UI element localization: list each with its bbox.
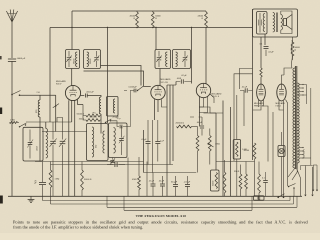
wire T1 feed (71, 49, 73, 51)
wire chassis rail (8, 195, 302, 197)
oscillator box B4 left (87, 124, 109, 161)
resistor R6 stopper (86, 119, 100, 122)
output transformer secondary (281, 15, 283, 31)
resistor R21 aerial shunt (10, 122, 18, 124)
svg-text:0.0001µF: 0.0001µF (129, 87, 138, 89)
wire tone circuit drop (264, 34, 266, 45)
wire V5 anode top (282, 75, 285, 84)
capacitor C8 .01uF (146, 141, 151, 143)
coil L4b oscillator reaction (103, 131, 105, 153)
capacitor C7 osc padder (119, 137, 124, 139)
wire top rail upper (72, 10, 206, 12)
wire C4 to coil L2 (87, 96, 101, 98)
wire V4 pins (258, 100, 260, 107)
wire V1 grid top (71, 69, 73, 86)
svg-text:30000: 30000 (213, 181, 215, 186)
trimmer C3 (94, 57, 99, 59)
svg-text:V.P. 4 B: V.P. 4 B (161, 82, 169, 84)
resistor R16 30000 ohm (81, 170, 84, 190)
coil L2 IF stopper (99, 97, 101, 114)
resistor R19 voltage divider (239, 174, 242, 189)
coil L3 aerial tuning (46, 129, 48, 159)
svg-text:.02 µF: .02 µF (242, 87, 248, 89)
capacitor C4 .0001uF (84, 94, 86, 98)
switch S5 mains on-off (288, 186, 290, 188)
valve V4 Mullard Pen4VA output pentode (257, 84, 266, 101)
wire top-left vertical (49, 28, 51, 123)
fuse F1 (254, 196, 265, 200)
mains transformer HT secondary winding (297, 83, 299, 163)
capacitor C9 .1uF (155, 141, 160, 143)
svg-text:1 MΩ: 1 MΩ (10, 120, 15, 122)
wire rail 5 (123, 196, 125, 210)
svg-text:.0004 µF: .0004 µF (17, 58, 26, 60)
IF transformer T2 secondary box (173, 50, 191, 69)
coil T2 secondary (176, 52, 178, 67)
capacitor C17 25uF cathode bias (39, 181, 46, 183)
switch S4 mains (277, 197, 279, 199)
mains tap leads (299, 147, 302, 149)
wire box drop (127, 158, 129, 197)
potentiometer arm (208, 144, 214, 148)
svg-text:50000: 50000 (244, 150, 249, 152)
svg-text:58000: 58000 (74, 59, 76, 64)
wire V1 anode lead (81, 95, 85, 97)
ground E1 (30, 196, 32, 199)
wire bias line (55, 95, 57, 131)
capacitor C20 .25uF (151, 183, 156, 185)
wire L2 down (100, 114, 102, 134)
pilot lamp P1 (278, 146, 285, 157)
svg-text:.04 µF: .04 µF (159, 181, 165, 183)
trimmer C10 (157, 57, 162, 59)
variable capacitor VC1 (50, 140, 56, 142)
wire R1 top (136, 11, 138, 12)
coil L5 oscillator tuning (114, 128, 116, 154)
capacitor C15 tone corrector (257, 12, 268, 35)
switch S2 on bias line (53, 104, 59, 108)
resistor R12 decoupling (253, 143, 256, 159)
coil L4 oscillator grid (92, 127, 94, 157)
svg-text:MULLARD: MULLARD (161, 78, 171, 81)
loudspeaker LS (284, 19, 287, 26)
mains transformer core (294, 66, 296, 169)
coil L7 inside filter box (113, 99, 115, 113)
heater wiring steps (199, 107, 223, 113)
svg-text:250: 250 (96, 145, 98, 148)
svg-text:MULLARD: MULLARD (254, 102, 264, 105)
trimmer C2 (67, 57, 72, 59)
page mark left edge (0, 108, 2, 115)
coil L1 aerial loading 2H (38, 100, 40, 117)
svg-text:200000 Ω: 200000 Ω (176, 123, 185, 125)
wire antenna down-lead (11, 22, 13, 58)
wire V3 pins (199, 97, 201, 127)
wire T1 secondary lower lead (84, 71, 144, 87)
wire drop (146, 162, 148, 197)
IF transformer T2 primary box (155, 50, 171, 69)
coil T1 secondary (87, 52, 89, 67)
resistor R1 20000 ohm (136, 12, 139, 28)
output transformer core (275, 13, 277, 33)
valve V3 Mullard TDD4 double-diode-triode (196, 83, 210, 97)
svg-text:904 V: 904 V (56, 84, 62, 86)
wire mains tap to plug (304, 158, 311, 165)
resistor R8 volume control (196, 136, 199, 152)
capacitor C23 0.1uF (185, 184, 190, 186)
capacitor C14 AF coupling (244, 88, 246, 92)
antenna A1 (6, 10, 17, 23)
svg-text:1 MΩ: 1 MΩ (55, 179, 60, 181)
svg-text:MULLARD: MULLARD (276, 102, 286, 105)
svg-text:MULLARD: MULLARD (56, 80, 66, 83)
wire mid verticals to chassis (143, 130, 145, 173)
page mark left edge lower (0, 196, 3, 204)
svg-text:.25 µF: .25 µF (149, 181, 155, 183)
IF transformer T1 secondary box (84, 50, 101, 69)
wire L3 top (45, 122, 47, 129)
output transformer primary (273, 13, 275, 33)
wire output anode with stopper (260, 37, 262, 68)
svg-text:0.1: 0.1 (262, 178, 265, 180)
switch S1 waveband (11, 94, 13, 96)
wire switch to coil L1 (20, 94, 56, 96)
wire R4 to diode anode (205, 28, 207, 84)
wire mid vertical (152, 120, 154, 173)
wire AF coupling verticals (215, 113, 217, 170)
resistor R7 200000 ohm AVC feed (177, 125, 192, 128)
wire speaker frame (281, 11, 292, 15)
svg-text:.0001 µF: .0001 µF (86, 92, 95, 94)
capacitor C18 8uF smoothing (114, 162, 116, 167)
svg-text:THE FERGUSON MODEL 610: THE FERGUSON MODEL 610 (136, 214, 187, 218)
tuning box B1 aerial circuit (23, 127, 43, 161)
svg-text:0.1: 0.1 (260, 44, 263, 46)
wire V2 pins (154, 99, 156, 120)
heater winding taps upper (299, 84, 302, 86)
wire mid rails (35, 161, 144, 163)
page mark left edge small (0, 56, 2, 59)
svg-text:.0001: .0001 (177, 78, 182, 80)
variable capacitor VC2 (60, 140, 66, 142)
wire HT vertical (252, 9, 254, 160)
svg-text:20 µµF: 20 µµF (113, 117, 120, 119)
resistor R13 parasitic stopper (260, 68, 262, 77)
svg-text:58000: 58000 (90, 59, 92, 64)
svg-text:from the anode of the I.F. amp: from the anode of the I.F. amplifier to … (13, 224, 143, 229)
valve V5 Mullard IW4 rectifier (277, 84, 286, 101)
boxed resistor R22 30000 ohm (211, 170, 220, 191)
capacitor C21 .04uF (160, 183, 165, 185)
resistor R5 oscillator grid leak (86, 114, 100, 117)
resistor R24 mains dropper (258, 174, 261, 193)
resistor R20 (245, 174, 248, 189)
valve V2 Mullard VP4 IF amplifier (151, 85, 165, 99)
mains lead arrows (312, 165, 314, 191)
wire detector feed (191, 28, 193, 82)
wire flex to transformer top (291, 40, 292, 68)
svg-text:30 µµF: 30 µµF (171, 182, 178, 184)
wire rail 3 (51, 203, 294, 205)
trimmer C19 below oscillator box (111, 160, 115, 162)
capacitor C6 padder (28, 141, 33, 143)
capacitor C1 .0004uF aerial series (8, 58, 16, 60)
coil T2 primary (166, 52, 168, 67)
coil T1 primary (75, 52, 77, 67)
wire V5 pins (279, 100, 284, 111)
resistor R2 50000 ohm (151, 12, 154, 28)
wire IF1 AVC feed (107, 28, 109, 124)
wire screen feed vertical (71, 11, 73, 50)
svg-text:.0003: .0003 (37, 146, 39, 151)
mains transformer primary winding (293, 68, 295, 168)
resistor R4 24000 ohm anode feed (205, 12, 208, 28)
IF filter box B3 (107, 97, 119, 117)
resistor R9 1 Mohm (208, 136, 211, 152)
resistor R15 bias 1 Mohm (49, 170, 52, 188)
loudspeaker box enclosure (253, 9, 298, 37)
wire HT negative rail (43, 200, 291, 202)
resistor R17 smoothing 4 Mohm (138, 176, 141, 190)
oscillator box B2 right (109, 123, 128, 158)
wire V2 anode top (159, 69, 161, 86)
wire heater rail right (310, 88, 312, 159)
resistor R23 (223, 172, 226, 193)
svg-text:4 MΩ: 4 MΩ (132, 179, 137, 181)
capacitor C26 (263, 180, 268, 182)
IF transformer T1 primary box (66, 50, 80, 69)
wire HT centre tap drop (272, 112, 274, 196)
mains plug arrows (304, 167, 306, 196)
svg-text:350 Ω: 350 Ω (234, 171, 240, 173)
wire transformer bottom exits (288, 163, 297, 180)
svg-text:.01 µF: .01 µF (141, 139, 147, 141)
svg-text:.02 µF: .02 µF (181, 75, 187, 77)
svg-text:30000 Ω: 30000 Ω (84, 179, 92, 181)
wire IF2 primary HT feed (155, 28, 157, 50)
wire rail 4 (106, 196, 108, 207)
wire antenna lead lower (11, 62, 13, 197)
wire V2 screen bus (166, 85, 168, 196)
svg-text:MULLARD: MULLARD (212, 93, 222, 96)
wire V1 cathode drop (68, 107, 70, 196)
resistor R11 1 Mohm boxed (233, 140, 240, 160)
wire L1 to chassis rail (39, 117, 41, 162)
wire IF grid link (144, 86, 151, 88)
switch S6 box corner (19, 126, 20, 127)
switch S3 osc range (105, 122, 106, 123)
svg-text:200-250 V: 200-250 V (304, 148, 306, 158)
wire detector output corners (234, 74, 253, 161)
wire grid rail (42, 131, 87, 133)
node top-left corner (50, 27, 252, 29)
resistor R14 tone (291, 42, 294, 56)
valve V1 Mullard 904V frequency changer (65, 85, 80, 100)
capacitor C22 30uuF (173, 184, 178, 186)
wire V1 pins (68, 100, 70, 107)
coil tone choke (263, 14, 265, 32)
svg-text:I.W. 4: I.W. 4 (276, 105, 282, 107)
trimmer C11 (183, 57, 188, 59)
svg-text:.04 µF: .04 µF (268, 52, 274, 54)
wire T1 secondary to AVC line (101, 66, 142, 86)
wire rectifier HT lead (284, 68, 292, 75)
svg-text:PEN 4 V.A.: PEN 4 V.A. (254, 104, 264, 107)
capacitor C12 diode coupling (180, 79, 182, 83)
capacitor C13 .04uF (200, 125, 204, 127)
capacitor C16 0.1uF (264, 45, 269, 47)
